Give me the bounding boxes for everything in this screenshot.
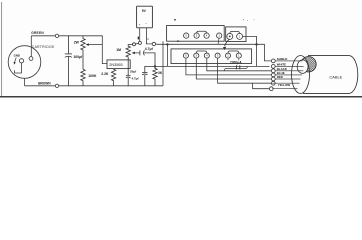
stub upper pin 4 to battery wire — [218, 38, 219, 44]
cable lead wire yellow — [272, 82, 290, 84]
resistor R5 3K — [153, 66, 157, 85]
wire green riser — [30, 36, 32, 57]
lower socket pin 1 — [183, 53, 188, 58]
cartridge hot pin — [29, 57, 33, 61]
wire white line — [155, 65, 270, 67]
lower socket pin digits — [185, 54, 240, 58]
upper socket pin 3 — [204, 33, 209, 38]
svg-text:9V: 9V — [142, 9, 147, 13]
cartridge body — [8, 46, 41, 79]
svg-text:SHIELD: SHIELD — [277, 57, 288, 61]
wire pin1 to BLUE terminal — [186, 58, 271, 75]
svg-text:−: − — [145, 22, 147, 26]
transistor Q1 2N3565 box — [107, 60, 130, 69]
terminal BLUE — [271, 73, 275, 77]
junction dot A — [166, 43, 168, 45]
cable conductor bundle braid (hatched) — [301, 56, 316, 71]
cable lead wire blue — [275, 74, 290, 76]
svg-text:BROWN: BROWN — [38, 82, 51, 86]
jumper arc pins 2-3 upper — [197, 31, 207, 33]
lower socket pin 5 — [225, 53, 230, 58]
R4 wiper arrow — [132, 52, 138, 55]
svg-text:+: + — [139, 22, 141, 26]
lower socket box — [171, 49, 252, 64]
svg-text:2N3565: 2N3565 — [109, 63, 122, 67]
jumper arc pins 2-3 lower — [196, 51, 207, 53]
jumper arc B1-B2 — [230, 32, 240, 34]
wire pin2 to RED terminal — [196, 58, 271, 79]
wire pin3 to BLACK terminal — [207, 58, 271, 71]
plug pin B1 center dot — [229, 36, 231, 38]
terminal spare — [269, 87, 273, 91]
wire pin4 to YELLOW terminal — [218, 58, 272, 83]
terminal BLACK — [271, 69, 275, 73]
cable lead wire white — [275, 65, 290, 67]
capacitor C3 4.7uf coupling — [137, 50, 155, 66]
terminal WHITE — [271, 65, 275, 69]
wire drop to white line — [166, 44, 168, 66]
potentiometer R4 1M — [126, 45, 133, 76]
cable wire tips inside end face — [290, 61, 304, 89]
wire drop yellow row to spare terminal — [253, 83, 270, 89]
plug pin B1 — [227, 33, 233, 39]
lower socket pin 2 — [194, 53, 199, 58]
capacitor C1 100uf — [65, 36, 72, 86]
upper socket pin 4 — [217, 33, 222, 38]
insertion arrow on box A — [176, 40, 179, 42]
arrow from plug pin B1 — [223, 39, 229, 50]
svg-text:RED: RED — [277, 75, 283, 79]
DS1 element bars — [236, 65, 239, 69]
wire top bus (green) — [31, 36, 107, 64]
node on green bus — [55, 34, 58, 37]
cable jacket body — [303, 56, 358, 94]
lamp DS1 leads — [228, 58, 239, 60]
svg-text:100μf: 100μf — [73, 55, 83, 59]
svg-text:4.7μf: 4.7μf — [145, 47, 154, 51]
resistor R1 2W rheostat — [81, 36, 85, 69]
switch S1 — [133, 41, 142, 45]
cable lead wire spare — [272, 88, 290, 90]
wire ground riser to socket — [162, 41, 164, 86]
BT1 negative lead — [146, 28, 148, 44]
svg-text:2W: 2W — [74, 40, 80, 44]
lower socket pin 4 — [215, 53, 220, 58]
cable bundle end face — [297, 60, 308, 73]
svg-text:GND: GND — [14, 53, 20, 57]
terminal SHIELD — [271, 59, 275, 63]
battery snap connector node — [152, 42, 155, 45]
node on ground bus — [55, 84, 58, 87]
plug pin B2 — [237, 33, 243, 39]
plug box B — [226, 27, 246, 42]
faint specks above plug — [243, 19, 244, 20]
BT1 positive lead — [139, 28, 141, 42]
svg-text:100K: 100K — [88, 74, 97, 78]
R1 wiper arrow — [86, 43, 103, 46]
upper socket pin digits — [186, 35, 221, 38]
cable lead wire red — [275, 78, 290, 80]
upper socket pin 1 — [184, 33, 189, 38]
resistor R2 100K — [81, 69, 85, 86]
svg-text:2300μA: 2300μA — [230, 61, 242, 65]
wire plug B2 to junction B — [243, 36, 257, 44]
svg-text:3K: 3K — [158, 71, 163, 75]
junction dot C3/R5 — [154, 65, 156, 67]
svg-text:4.7μf: 4.7μf — [132, 77, 139, 81]
upper socket box A — [167, 26, 225, 42]
DS1 bottom loop wire — [224, 67, 247, 71]
capacitor C4 25uf — [142, 66, 155, 85]
svg-text:CARTRIDGE: CARTRIDGE — [32, 45, 55, 49]
upper socket pin 2 — [194, 33, 199, 38]
svg-text:WHITE: WHITE — [277, 63, 286, 67]
wire brown drop from cartridge — [24, 78, 26, 86]
cartridge ground pin (bent) — [15, 59, 24, 73]
terminal RED — [271, 77, 275, 81]
jumper arc pins 5-6 lower — [228, 51, 239, 53]
svg-text:1M: 1M — [116, 48, 121, 52]
capacitor C2 4.7uf (series under R4) — [126, 75, 131, 86]
wire ground bus — [25, 85, 164, 87]
svg-text:25μf: 25μf — [130, 69, 136, 73]
wire drop B to white line — [256, 44, 258, 66]
lower socket pin 3 — [204, 53, 209, 58]
svg-text:2.2K: 2.2K — [101, 72, 109, 76]
junction dot B — [255, 43, 257, 45]
resistor R3 2.2K — [111, 69, 115, 86]
battery BT1 9V — [137, 6, 153, 28]
terminal YELLOW — [271, 81, 275, 85]
svg-text:CABLE: CABLE — [330, 74, 343, 79]
BT1 lead mark — [138, 37, 139, 40]
cable lead wire black — [275, 70, 290, 72]
cable lead wire shield — [275, 60, 290, 62]
GND arrow — [13, 58, 16, 65]
speck above box A — [174, 19, 176, 21]
wire battery minus bus — [149, 44, 272, 61]
cable end face — [292, 56, 310, 94]
svg-text:YELLOW: YELLOW — [278, 83, 291, 87]
lower socket pin 6 — [236, 53, 241, 58]
svg-text:GREEN: GREEN — [31, 31, 44, 35]
